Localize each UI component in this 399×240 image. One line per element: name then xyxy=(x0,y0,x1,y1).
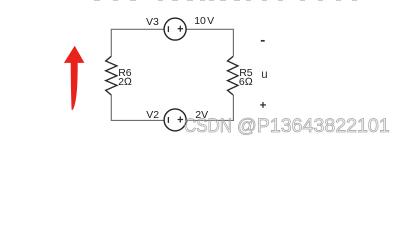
wire bottom-left segment: R6 bottom to bottom-left corner to V2 left terminal xyxy=(111,95,164,120)
watermark @P13643822101 xyxy=(237,117,390,137)
V3 minus bar (rotated minus sign) xyxy=(167,26,169,32)
voltage source V2 circle xyxy=(164,109,186,131)
label 10V xyxy=(194,16,214,27)
wire top-right segment: V3 right terminal to top-right corner, down to R5 xyxy=(186,29,233,56)
red annotation arrow head xyxy=(64,46,85,63)
label u (voltage annotation) xyxy=(261,70,267,82)
label 2V xyxy=(195,110,208,121)
label V3 xyxy=(146,17,159,28)
voltage source V3 circle xyxy=(164,18,186,40)
red annotation arrow shaft xyxy=(71,62,78,110)
watermark remnant dashes along top edge xyxy=(94,0,100,1)
watermark CSDN (compressed) xyxy=(184,117,232,137)
wire bottom-right segment: V2 right terminal to bottom-right corner up to R5 xyxy=(186,95,233,120)
wire top-left segment: V3 left terminal to top-left corner, down to R6 xyxy=(111,29,164,56)
label R5 xyxy=(239,68,252,79)
label V2 xyxy=(146,110,159,121)
V2 minus bar (rotated minus sign) xyxy=(167,117,169,123)
plus mark of u annotation xyxy=(260,104,266,106)
V2 plus sign xyxy=(178,119,184,121)
label R6 value 2 ohm xyxy=(118,77,132,88)
resistor R5 zigzag xyxy=(228,56,239,95)
label R5 value 6 ohm xyxy=(239,77,253,88)
resistor R6 zigzag xyxy=(106,56,117,95)
minus mark of u annotation xyxy=(261,40,265,42)
label R6 xyxy=(118,68,131,79)
V3 plus sign xyxy=(178,28,184,30)
